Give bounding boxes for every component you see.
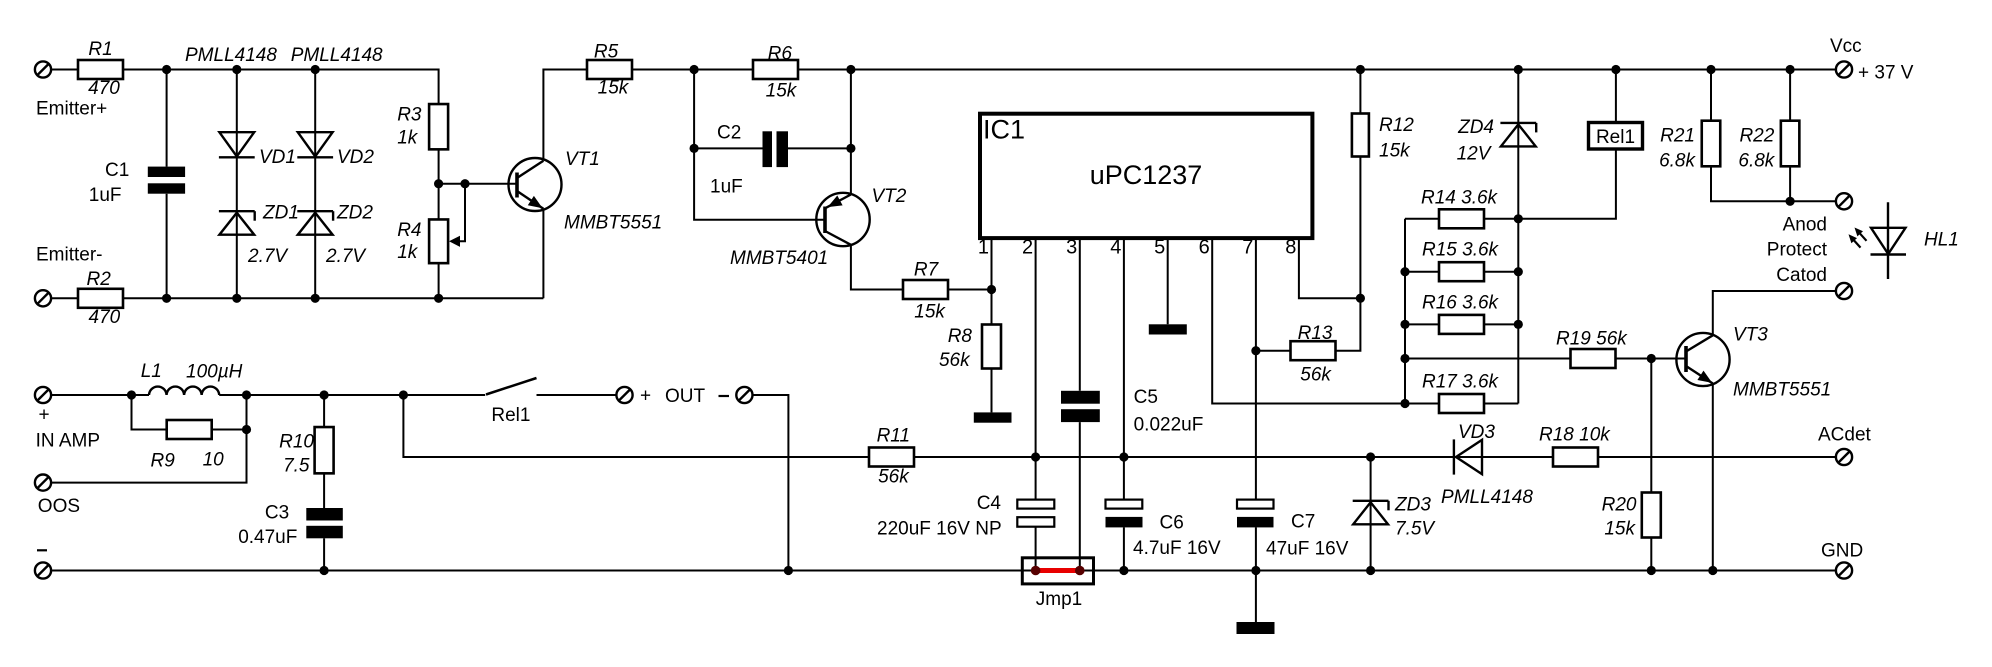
wire: R17 row (1405, 403, 1518, 405)
svg-text:R21: R21 (1660, 126, 1695, 147)
wire: C2 left branch and VT2 base (694, 70, 825, 220)
svg-text:R6: R6 (768, 44, 793, 65)
resistor R19 56k (1556, 329, 1628, 369)
svg-text:C7: C7 (1291, 512, 1315, 533)
label OUT (665, 386, 729, 407)
wire: IC pin 3 line (1079, 237, 1081, 391)
zener ZD3 7.5V (1353, 495, 1437, 540)
svg-text:10: 10 (203, 450, 225, 471)
node pin4/line (1119, 452, 1128, 461)
svg-text:R2: R2 (87, 269, 112, 290)
node R10 top (320, 390, 329, 399)
svg-text:R15 3.6k: R15 3.6k (1422, 240, 1500, 261)
svg-text:VD2: VD2 (337, 147, 374, 168)
node OUT- gnd (784, 566, 793, 575)
svg-text:+: + (38, 405, 49, 426)
node ZD4/Rel1/R14 (1514, 214, 1523, 223)
svg-text:VT2: VT2 (872, 186, 907, 207)
wire: R10 / C3 column (323, 395, 325, 571)
svg-text:2.7V: 2.7V (325, 246, 367, 267)
wire: VT1 collector to R5 (543, 70, 587, 161)
svg-text:R5: R5 (594, 42, 619, 63)
resistor R6 (753, 44, 798, 102)
svg-text:7.5: 7.5 (283, 456, 310, 477)
resistor R14 3.6k (1421, 188, 1499, 229)
svg-text:15k: 15k (598, 78, 630, 99)
node VD1 tap (232, 65, 241, 74)
resistor R13 (1291, 323, 1336, 386)
IC1 pin number 8 (1285, 237, 1296, 259)
svg-text:0.022uF: 0.022uF (1134, 415, 1204, 436)
svg-text:15k: 15k (914, 302, 946, 323)
node R20 gnd (1647, 566, 1656, 575)
svg-text:2.7V: 2.7V (247, 246, 289, 267)
node VD2 tap (311, 65, 320, 74)
svg-text:470: 470 (88, 78, 120, 99)
terminal OUT+ (616, 386, 651, 407)
svg-text:0.47uF: 0.47uF (238, 527, 297, 548)
node R9 right (242, 425, 251, 434)
node R5/R6/C2 (690, 65, 699, 74)
svg-text:PMLL4148: PMLL4148 (1441, 487, 1533, 508)
svg-text:R3: R3 (397, 105, 422, 126)
diode VD2 PMLL4148 (291, 45, 383, 168)
svg-text:Protect: Protect (1767, 240, 1828, 261)
resistor R22 (1738, 121, 1799, 172)
IC U1 uPC1237 (980, 114, 1312, 238)
svg-text:2: 2 (1022, 237, 1033, 259)
capacitor C5 0.022uF (1061, 387, 1203, 436)
svg-text:Jmp1: Jmp1 (1036, 589, 1082, 610)
svg-text:HL1: HL1 (1924, 230, 1959, 251)
wire: R13 left to pin 7 (1256, 350, 1291, 352)
resistor R2 (78, 269, 123, 328)
svg-text:R7: R7 (914, 260, 940, 281)
node L1 right (242, 390, 251, 399)
terminal Anod (1783, 193, 1852, 235)
node Rel1 top (1611, 65, 1620, 74)
node C6 gnd (1119, 566, 1128, 575)
svg-text:56k: 56k (939, 350, 971, 371)
resistor R12 (1352, 114, 1414, 162)
wire: OOS connection (51, 395, 247, 483)
node R21 top (1706, 65, 1715, 74)
wire: R11 / ACdet line (403, 395, 1836, 457)
terminal Emitter- (35, 245, 103, 307)
capacitor C1 (89, 160, 185, 206)
wire: R14 row (1405, 218, 1518, 220)
svg-text:+: + (640, 386, 651, 407)
svg-text:1k: 1k (397, 242, 419, 263)
svg-text:R18 10k: R18 10k (1539, 425, 1611, 446)
node C1 tap (162, 65, 171, 74)
node bus R19 (1400, 354, 1409, 363)
svg-text:R16 3.6k: R16 3.6k (1422, 293, 1500, 314)
node R21/R22 bottom (1786, 197, 1795, 206)
wire: GND bottom rail (51, 570, 1836, 572)
terminal OOS (35, 475, 80, 518)
wire: VT3 emitter to GND rail (1712, 384, 1714, 571)
svg-text:Anod: Anod (1783, 215, 1827, 236)
svg-text:15k: 15k (1604, 519, 1636, 540)
svg-text:C5: C5 (1134, 387, 1158, 408)
capacitor C3 0.47uF (238, 503, 343, 549)
resistor R11 56k (869, 426, 914, 488)
svg-text:C2: C2 (717, 123, 741, 144)
svg-text:4: 4 (1110, 237, 1121, 259)
jumper red link (1031, 566, 1085, 576)
wire: ZD3 column (1370, 457, 1372, 571)
node ZD2 bottom (311, 294, 320, 303)
wire: VD1/ZD1 column (236, 70, 238, 299)
wire: C7 bottom through GND rail to ground (1255, 527, 1257, 622)
svg-text:Vcc: Vcc (1830, 36, 1862, 57)
node R3/R4 junction (434, 179, 443, 188)
svg-text:Catod: Catod (1776, 265, 1827, 286)
node pin7/R13 (1251, 346, 1260, 355)
svg-text:Rel1: Rel1 (491, 405, 530, 426)
wire: R7 to IC pin 1 (948, 289, 992, 291)
svg-text:1uF: 1uF (710, 177, 743, 198)
svg-text:R10: R10 (279, 432, 314, 453)
svg-text:Emitter-: Emitter- (36, 245, 103, 266)
svg-text:100µH: 100µH (186, 362, 243, 383)
svg-text:56k: 56k (878, 467, 910, 488)
resistor R5 (587, 42, 632, 99)
wire: R22 column (1789, 70, 1791, 202)
wire: VT2 emitter to R7 (851, 245, 903, 290)
node pin8/R12/R13 (1356, 294, 1365, 303)
svg-text:PMLL4148: PMLL4148 (291, 45, 383, 66)
svg-text:R1: R1 (88, 39, 112, 60)
wire: VT1 emitter down (542, 209, 544, 298)
wire: R9 loop (132, 395, 247, 430)
svg-text:IN AMP: IN AMP (36, 431, 100, 452)
wire: Emitter+ input rail to R3 top (51, 70, 439, 105)
LED light arrows (1849, 228, 1867, 248)
svg-text:R4: R4 (397, 220, 421, 241)
terminal Catod (1776, 265, 1852, 299)
resistor R15 3.6k (1422, 240, 1500, 282)
wire: OUT- down to GND rail (752, 395, 788, 571)
wire: IC pin 2 line (1035, 237, 1037, 500)
node bus R15 (1400, 267, 1409, 276)
svg-text:MMBT5551: MMBT5551 (1733, 380, 1831, 401)
svg-text:6: 6 (1199, 237, 1210, 259)
svg-text:R20: R20 (1602, 495, 1637, 516)
LED HL1 (1871, 202, 1959, 279)
svg-text:1k: 1k (397, 128, 419, 149)
jumper Jmp1 (1022, 558, 1093, 610)
svg-text:7.5V: 7.5V (1395, 519, 1436, 540)
terminal Vcc +37V (1830, 36, 1914, 84)
svg-text:ZD1: ZD1 (262, 203, 299, 224)
svg-text:6.8k: 6.8k (1659, 151, 1696, 172)
resistor R8 (939, 325, 1001, 372)
svg-text:VT3: VT3 (1733, 325, 1768, 346)
resistor R20 (1602, 493, 1661, 540)
resistor R18 10k (1539, 425, 1611, 467)
wire: R12 column (1336, 70, 1361, 351)
svg-text:15k: 15k (766, 81, 798, 102)
wire: Rel1 coil connections (1518, 70, 1616, 219)
svg-text:PMLL4148: PMLL4148 (185, 45, 277, 66)
wire: IC pin 8 to R12 bottom (1299, 237, 1361, 298)
node ZD4 top (1514, 65, 1523, 74)
node R12 top (1356, 65, 1365, 74)
svg-text:C1: C1 (105, 160, 129, 181)
svg-text:47uF 16V: 47uF 16V (1266, 539, 1349, 560)
ground symbol at IC pin 5 (1149, 324, 1187, 334)
svg-text:Rel1: Rel1 (1596, 127, 1635, 148)
node pin1/R7/R8 (987, 285, 996, 294)
node ZD1 bottom (232, 294, 241, 303)
wire: C1 branch (166, 70, 168, 299)
svg-text:56k: 56k (1300, 365, 1332, 386)
node right bus R15 (1514, 267, 1523, 276)
zener ZD4 12V (1457, 117, 1537, 165)
capacitor C7 47uF 16V (1237, 500, 1349, 560)
relay switch Rel1 (486, 378, 537, 426)
terminal Emitter+ (35, 61, 107, 119)
wire: R16 row (1405, 323, 1518, 325)
node C7 gnd (1251, 566, 1260, 575)
IC1 pin number 4 (1110, 237, 1121, 259)
IC1 pin number 7 (1242, 237, 1253, 259)
svg-text:ZD3: ZD3 (1394, 495, 1431, 516)
node VT3 emitter gnd (1708, 566, 1717, 575)
terminal ACdet (1818, 425, 1872, 466)
wire: C5 to Jmp1 right (1079, 422, 1081, 570)
svg-text:4.7uF 16V: 4.7uF 16V (1133, 538, 1221, 559)
diode VD1 PMLL4148 (185, 45, 296, 168)
IC1 pin number 1 (978, 237, 989, 259)
IC1 pin number 3 (1066, 237, 1077, 259)
node R6/VT2 (846, 65, 855, 74)
svg-text:R22: R22 (1739, 126, 1774, 147)
IC1 pin number 6 (1199, 237, 1210, 259)
node R22 top (1786, 65, 1795, 74)
wire: R20 column (1650, 359, 1652, 571)
node ZD3 gnd (1366, 566, 1375, 575)
node pin2/R11 (1031, 452, 1040, 461)
svg-text:8: 8 (1285, 237, 1296, 259)
node bus R16 (1400, 320, 1409, 329)
potentiometer R4 (397, 219, 448, 263)
wire: R21 column (1711, 70, 1836, 202)
svg-text:GND: GND (1821, 541, 1863, 562)
wire: R4 wiper (449, 184, 465, 247)
svg-text:VD1: VD1 (259, 147, 296, 168)
resistor R10 (279, 427, 333, 476)
node C3 bottom (320, 566, 329, 575)
svg-text:R11: R11 (877, 426, 910, 447)
svg-text:220uF 16V NP: 220uF 16V NP (877, 519, 1002, 540)
resistor R16 3.6k (1422, 293, 1500, 334)
wire: IN AMP + rail (51, 394, 485, 396)
wire: C2 right to VT2 collector column (788, 70, 851, 195)
wire: IC pin 6 to divider bus (1212, 237, 1405, 404)
svg-text:R13: R13 (1298, 323, 1333, 344)
svg-text:C3: C3 (265, 503, 289, 524)
node OUT/R11 tap (399, 390, 408, 399)
IC1 pin number 2 (1022, 237, 1033, 259)
wire: ZD4 column / right divider bus (1517, 70, 1519, 404)
capacitor C4 220uF 16V NP (877, 493, 1054, 540)
svg-text:OUT: OUT (665, 386, 706, 407)
relay coil Rel1 (1589, 123, 1643, 150)
node C1 bottom (162, 294, 171, 303)
svg-text:+ 37 V: + 37 V (1858, 63, 1914, 84)
transistor VT3 MMBT5551 (1676, 325, 1831, 401)
svg-text:L1: L1 (141, 361, 162, 382)
wire: Emitter- bottom rail (51, 297, 543, 299)
zener ZD1 2.7V (219, 203, 299, 268)
resistor R17 3.6k (1422, 372, 1500, 414)
svg-text:Emitter+: Emitter+ (36, 99, 107, 120)
svg-text:uPC1237: uPC1237 (1090, 160, 1203, 190)
svg-text:MMBT5401: MMBT5401 (730, 248, 828, 269)
wire: R15 row (1405, 271, 1518, 273)
wire: IC pin 5 to ground (1167, 237, 1169, 324)
capacitor C6 4.7uF 16V (1106, 500, 1221, 559)
transistor VT2 MMBT5401 (730, 186, 907, 269)
diode VD3 PMLL4148 (1441, 422, 1533, 508)
resistor R1 (78, 39, 123, 99)
terminal GND (1821, 541, 1863, 579)
wire: relay contact to OUT+ (537, 394, 617, 396)
wire: IC pin 7 line (1255, 237, 1257, 500)
wire: main Vcc rail (798, 69, 1836, 71)
svg-text:1uF: 1uF (89, 185, 122, 206)
svg-text:R17 3.6k: R17 3.6k (1422, 372, 1500, 393)
ground symbol at R8 (974, 412, 1012, 422)
transistor VT1 MMBT5551 (509, 149, 663, 234)
svg-text:5: 5 (1154, 237, 1165, 259)
svg-text:15k: 15k (1379, 141, 1411, 162)
wire: R3 to R4 with VT1 base tap (439, 149, 517, 219)
IC1 pin number 5 (1154, 237, 1165, 259)
resistor R3 (397, 104, 448, 149)
svg-text:12V: 12V (1457, 144, 1493, 165)
svg-text:ZD2: ZD2 (336, 203, 373, 224)
wire: VT3 collector to Catod terminal (1713, 291, 1836, 335)
svg-text:ACdet: ACdet (1818, 425, 1872, 446)
wire: IC pin 1 line to R8 (991, 237, 993, 325)
svg-text:6.8k: 6.8k (1738, 151, 1775, 172)
node ZD3 top (1366, 452, 1375, 461)
ground symbol below C7 (1237, 622, 1275, 634)
terminal minus input (35, 550, 51, 578)
wire: VD2/ZD2 column (314, 70, 316, 299)
svg-text:7: 7 (1242, 237, 1253, 259)
wire: C6 bottom to GND rail (1123, 527, 1125, 570)
terminal IN AMP + (35, 387, 100, 452)
terminal OUT- (736, 387, 752, 403)
inductor L1 100uH (141, 361, 243, 395)
node L1 left (127, 390, 136, 399)
label Protect (1767, 240, 1828, 261)
node bus pin6/R17 (1400, 399, 1409, 408)
node wiper tap (460, 179, 469, 188)
svg-text:R8: R8 (948, 326, 973, 347)
resistor R9 (151, 420, 225, 472)
resistor R21 (1659, 121, 1720, 172)
wire: R19 row to VT3 base (1405, 358, 1686, 360)
node C2 left (690, 144, 699, 153)
svg-text:ZD4: ZD4 (1457, 117, 1494, 138)
wire: C4 to Jmp1 left (1035, 527, 1037, 571)
svg-text:MMBT5551: MMBT5551 (564, 213, 662, 234)
svg-text:C4: C4 (977, 493, 1002, 514)
node R19/R20/VT3 base (1647, 354, 1656, 363)
capacitor C2 (710, 123, 788, 198)
node R4 bottom (434, 294, 443, 303)
svg-text:R19 56k: R19 56k (1556, 329, 1628, 350)
svg-text:VD3: VD3 (1458, 422, 1495, 443)
resistor R7 (903, 260, 948, 323)
svg-text:3: 3 (1066, 237, 1077, 259)
zener ZD2 2.7V (297, 203, 373, 268)
wire: R8 to ground (991, 369, 993, 413)
svg-text:VT1: VT1 (565, 149, 600, 170)
svg-text:R14 3.6k: R14 3.6k (1421, 188, 1499, 209)
svg-text:IC1: IC1 (983, 115, 1025, 145)
svg-text:C6: C6 (1160, 513, 1184, 534)
wire: IC pin 4 line (1123, 237, 1125, 500)
svg-text:470: 470 (89, 307, 121, 328)
svg-text:1: 1 (978, 237, 989, 259)
svg-text:OOS: OOS (38, 496, 80, 517)
wire: left divider bus (1404, 219, 1406, 404)
wire: R5 to R6 (632, 69, 753, 71)
svg-text:R12: R12 (1379, 115, 1414, 136)
svg-text:R9: R9 (151, 451, 176, 472)
node C2 right (846, 144, 855, 153)
node right bus R16 (1514, 320, 1523, 329)
wire: R4 bottom (438, 263, 440, 298)
